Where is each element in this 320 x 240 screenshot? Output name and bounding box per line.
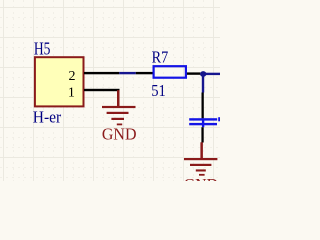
svg-text:1: 1 xyxy=(68,85,75,100)
grid minor xyxy=(0,0,220,181)
ground GND (lower) bar1 xyxy=(184,158,217,160)
wire junction down xyxy=(202,74,204,93)
ground GND (lower) bar3 xyxy=(196,169,206,171)
svg-text:51: 51 xyxy=(151,81,166,100)
pin 2 line xyxy=(84,72,119,74)
capacitor top pin xyxy=(202,93,204,119)
resistor R7 body xyxy=(154,66,186,78)
ground GND (upper) stem xyxy=(117,90,120,107)
capacitor bottom pin xyxy=(201,127,203,142)
ground GND (upper) bar4 xyxy=(117,124,122,126)
resistor R7 left pin xyxy=(136,72,153,74)
connector H5 body xyxy=(35,57,84,106)
sheet background xyxy=(0,0,220,181)
ground GND (upper) bar1 xyxy=(102,106,136,108)
capacitor top plate xyxy=(189,118,217,120)
resistor R7 right pin xyxy=(187,72,200,74)
ground GND (upper) bar2 xyxy=(107,112,129,114)
wire pin2 to R7 xyxy=(119,72,136,74)
svg-text:GND: GND xyxy=(184,175,218,181)
svg-text:R7: R7 xyxy=(152,48,169,67)
ground GND (upper) bar3 xyxy=(111,118,124,120)
pin 1 line xyxy=(84,89,120,91)
capacitor center stem xyxy=(202,119,204,127)
grid major xyxy=(0,0,220,181)
ground GND (lower) bar4 xyxy=(199,174,205,176)
svg-text:H5: H5 xyxy=(34,39,51,59)
designator fragment C (cut at edge) xyxy=(218,117,220,121)
svg-text:2: 2 xyxy=(69,69,76,84)
svg-text:H-er: H-er xyxy=(33,108,62,127)
ground GND (lower) stem xyxy=(200,142,203,159)
junction dot xyxy=(200,71,206,77)
svg-text:GND: GND xyxy=(102,124,137,143)
wire right of junction xyxy=(206,73,220,75)
ground GND (lower) bar2 xyxy=(190,164,211,166)
capacitor bottom plate xyxy=(189,123,217,125)
